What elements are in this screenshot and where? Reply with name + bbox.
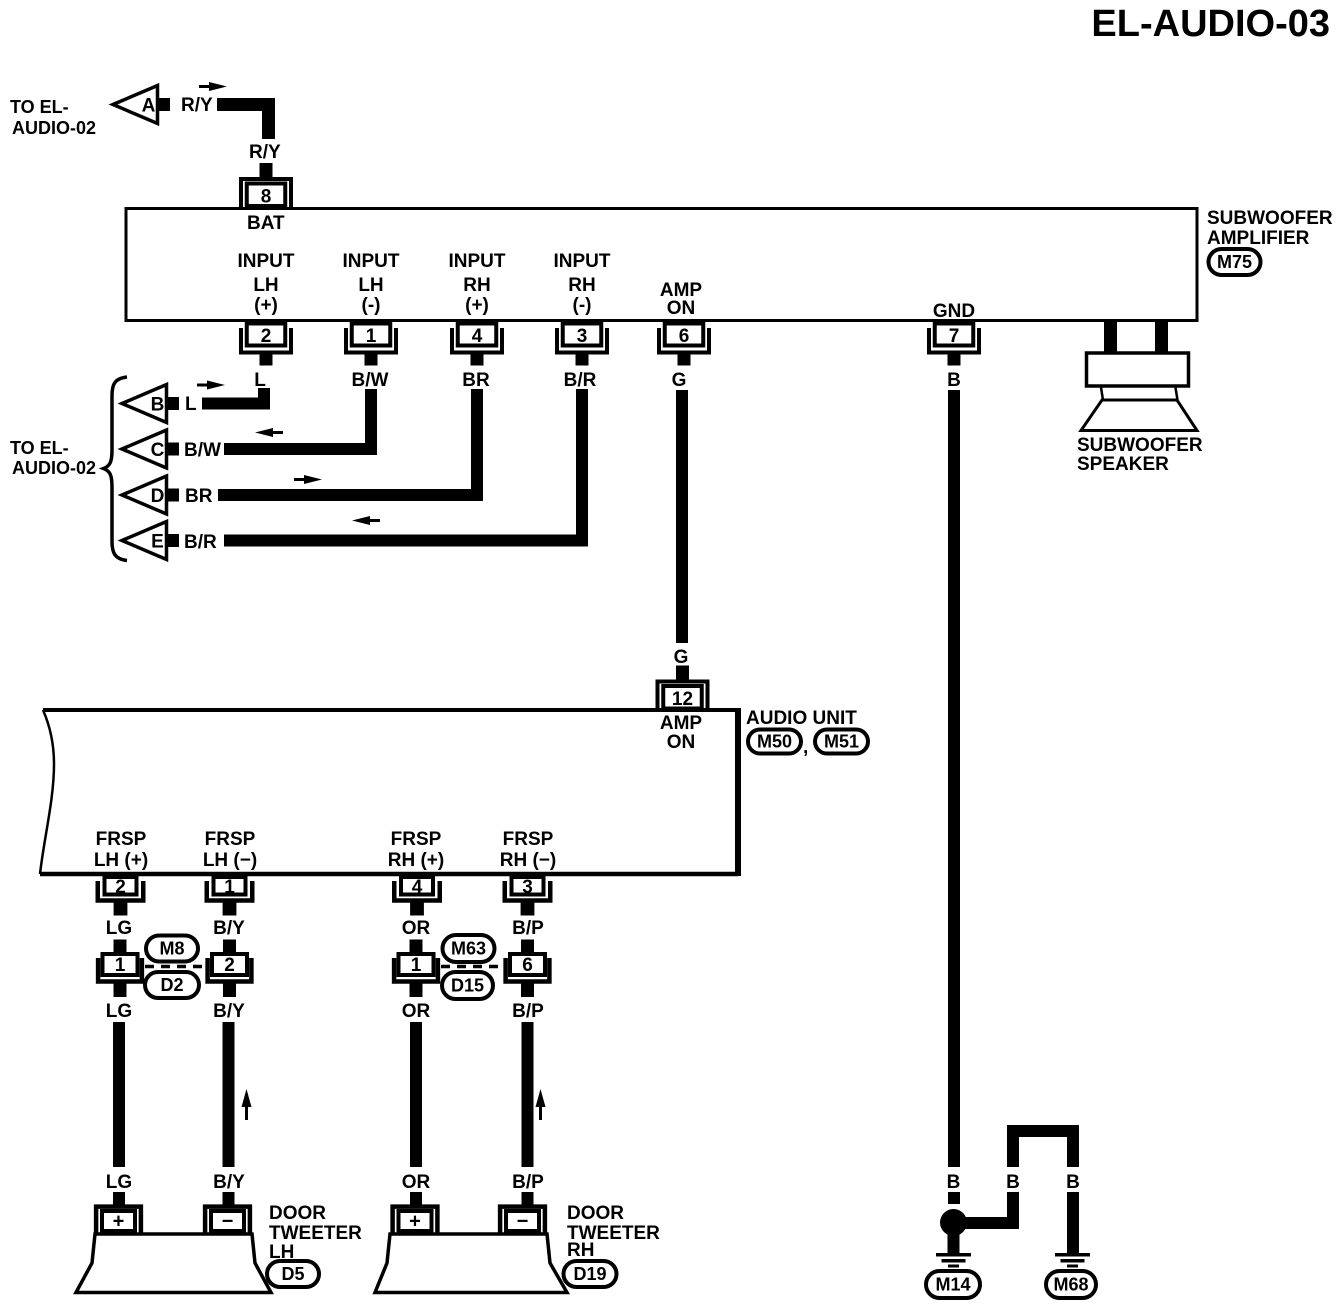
n-shaped wire B branch	[1013, 1131, 1073, 1167]
wire B/Y down to door tweeter LH -	[223, 1022, 235, 1167]
svg-text:D: D	[151, 486, 165, 507]
in-line connector pin 1 (LH, M8/D2)	[98, 940, 142, 998]
svg-text:B/R: B/R	[184, 532, 217, 553]
svg-text:RH: RH	[568, 275, 595, 296]
brace	[104, 377, 128, 561]
svg-text:B/P: B/P	[512, 918, 544, 939]
wire G from pin 6 down to audio unit pin 12	[676, 390, 688, 643]
door tweeter RH pin +	[393, 1207, 438, 1233]
connector ref D19	[564, 1261, 617, 1287]
wire colour labels above door tweeters	[106, 1172, 544, 1193]
svg-text:FRSP: FRSP	[391, 829, 442, 850]
svg-text:AUDIO-02: AUDIO-02	[12, 458, 96, 478]
svg-text:2: 2	[224, 955, 235, 976]
pin 3 (FRSP RH -) on audio unit	[505, 877, 551, 916]
svg-text:6: 6	[679, 326, 690, 347]
svg-text:(-): (-)	[573, 295, 592, 316]
wire B from pin 7 (GND) down	[948, 390, 960, 1167]
svg-text:G: G	[674, 647, 689, 668]
connector arrow D	[122, 476, 179, 514]
wire stubs into door tweeter pins	[113, 1192, 534, 1206]
direction arrow right (B)	[197, 384, 210, 387]
svg-text:1: 1	[115, 955, 126, 976]
svg-text:8: 8	[261, 187, 272, 208]
svg-text:RH (−): RH (−)	[500, 850, 556, 871]
svg-text:FRSP: FRSP	[503, 829, 554, 850]
wire right branch down to ground M68	[1067, 1192, 1079, 1253]
svg-text:6: 6	[522, 955, 533, 976]
svg-text:M51: M51	[824, 732, 859, 752]
svg-text:B/Y: B/Y	[213, 1172, 245, 1193]
svg-text:,: ,	[803, 737, 808, 758]
svg-text:L: L	[254, 370, 266, 391]
svg-text:OR: OR	[402, 1172, 431, 1193]
pin 6 (AMP ON)	[659, 324, 709, 366]
svg-text:AUDIO-02: AUDIO-02	[12, 118, 96, 138]
svg-text:RH (+): RH (+)	[388, 850, 444, 871]
pin 2 (INPUT LH +)	[241, 324, 291, 366]
label TO EL-AUDIO-02 (top)	[10, 97, 96, 138]
svg-text:M68: M68	[1053, 1275, 1088, 1295]
pin function labels INPUT LH/RH	[238, 251, 611, 316]
svg-text:LH (+): LH (+)	[94, 850, 148, 871]
svg-text:LH: LH	[358, 275, 383, 296]
svg-text:LG: LG	[106, 918, 132, 939]
pin function label AMP ON (audio unit)	[660, 713, 703, 753]
wire junction to middle branch	[954, 1192, 1014, 1229]
connector ref D2	[145, 972, 199, 998]
in-line connector pin 6 (RH, M63/D15)	[506, 940, 550, 998]
svg-text:ON: ON	[667, 298, 696, 319]
ground ref M14	[926, 1271, 980, 1298]
wire stub junction down to ground M14	[948, 1234, 960, 1253]
svg-text:B: B	[151, 395, 165, 416]
connector arrow E	[122, 522, 179, 560]
subwoofer speaker symbol	[1081, 353, 1197, 431]
pin 4 (FRSP RH +) on audio unit	[394, 877, 440, 916]
pin 2 (FRSP LH +) on audio unit	[98, 877, 144, 916]
wire B/W from C up to pin 1	[224, 389, 371, 449]
svg-text:SPEAKER: SPEAKER	[1077, 454, 1169, 475]
pin function label AMP ON	[660, 280, 703, 319]
svg-text:(+): (+)	[465, 295, 489, 316]
svg-text:BR: BR	[185, 486, 213, 507]
svg-text:B: B	[1066, 1172, 1080, 1193]
wire colour labels under audio unit pins	[106, 918, 544, 939]
connector arrow B	[122, 385, 179, 423]
svg-text:D19: D19	[573, 1264, 606, 1284]
svg-text:B/Y: B/Y	[213, 1001, 245, 1022]
svg-text:INPUT: INPUT	[449, 251, 506, 272]
svg-text:M8: M8	[159, 939, 184, 959]
connector ref D5	[267, 1261, 319, 1287]
svg-text:D5: D5	[281, 1264, 304, 1284]
component name SUBWOOFER SPEAKER	[1077, 435, 1203, 475]
svg-text:LG: LG	[106, 1172, 132, 1193]
pin 4 (INPUT RH +)	[452, 324, 502, 366]
connector ref M50	[748, 730, 801, 754]
wire LG down to door tweeter LH +	[113, 1022, 125, 1167]
svg-text:OR: OR	[402, 918, 431, 939]
direction arrow right (D)	[294, 478, 307, 481]
component name DOOR TWEETER RH	[567, 1203, 660, 1261]
svg-text:R/Y: R/Y	[249, 142, 281, 163]
svg-text:FRSP: FRSP	[96, 829, 147, 850]
svg-text:(-): (-)	[362, 295, 381, 316]
svg-text:TO EL-: TO EL-	[10, 97, 69, 117]
ground ref M68	[1046, 1271, 1096, 1298]
svg-text:TO EL-: TO EL-	[10, 438, 69, 458]
svg-text:−: −	[222, 1211, 234, 1233]
connector ref M8	[146, 936, 198, 962]
svg-text:LH (−): LH (−)	[203, 850, 257, 871]
svg-text:L: L	[185, 394, 197, 415]
svg-text:B/R: B/R	[564, 370, 597, 391]
pin 1 (FRSP LH -) on audio unit	[207, 877, 253, 916]
svg-text:+: +	[409, 1211, 421, 1233]
svg-text:B: B	[947, 1172, 961, 1193]
pin function labels FRSP	[94, 829, 556, 871]
svg-text:E: E	[151, 532, 164, 553]
svg-text:B: B	[1006, 1172, 1020, 1193]
ground symbol (M68)	[1055, 1253, 1090, 1268]
svg-text:2: 2	[261, 326, 272, 347]
wire B/P down to door tweeter RH -	[522, 1022, 534, 1167]
svg-text:−: −	[517, 1211, 529, 1233]
svg-text:M14: M14	[935, 1275, 970, 1295]
svg-text:G: G	[672, 370, 687, 391]
svg-text:BAT: BAT	[247, 213, 285, 234]
svg-text:TWEETER: TWEETER	[269, 1223, 362, 1244]
svg-text:3: 3	[522, 877, 533, 898]
pin 7 (GND)	[929, 324, 979, 366]
svg-text:FRSP: FRSP	[205, 829, 256, 850]
door tweeter LH pin -	[205, 1207, 250, 1233]
direction arrow right (A)	[199, 85, 212, 88]
junction dot	[940, 1209, 967, 1236]
component name SUBWOOFER AMPLIFIER	[1207, 208, 1333, 249]
svg-text:3: 3	[577, 326, 588, 347]
connector ref M51	[815, 730, 868, 754]
svg-text:OR: OR	[402, 1001, 431, 1022]
wire colour labels below in-line connectors	[106, 1001, 544, 1022]
svg-text:2: 2	[115, 877, 126, 898]
svg-text:4: 4	[472, 326, 483, 347]
svg-text:M75: M75	[1217, 252, 1252, 272]
direction arrow up (B/P)	[539, 1104, 542, 1120]
connector arrow A (to EL-AUDIO-02)	[113, 86, 170, 124]
svg-text:LH: LH	[253, 275, 278, 296]
wire BR from D up to pin 4	[218, 389, 477, 495]
svg-text:DOOR: DOOR	[567, 1203, 624, 1224]
svg-text:B/P: B/P	[512, 1172, 544, 1193]
svg-text:+: +	[113, 1211, 125, 1233]
door tweeter RH pin -	[500, 1207, 545, 1233]
svg-text:ON: ON	[667, 732, 696, 753]
svg-text:RH: RH	[567, 1240, 594, 1261]
wire stubs amplifier to subwoofer speaker	[1104, 322, 1168, 353]
component name DOOR TWEETER LH	[269, 1203, 362, 1263]
svg-text:SUBWOOFER: SUBWOOFER	[1077, 435, 1203, 456]
svg-text:RH: RH	[463, 275, 490, 296]
in-line connector pin 1 (RH, M63/D15)	[394, 940, 438, 998]
dashed connector link (M8/D2)	[145, 965, 204, 969]
svg-text:AUDIO UNIT: AUDIO UNIT	[746, 708, 857, 729]
svg-text:B/P: B/P	[512, 1001, 544, 1022]
direction arrow left (E)	[367, 519, 380, 522]
wire stub main B into junction	[948, 1192, 960, 1204]
svg-text:BR: BR	[462, 370, 490, 391]
wire B/R from E up to pin 3	[224, 389, 582, 541]
svg-text:AMPLIFIER: AMPLIFIER	[1207, 228, 1310, 249]
svg-text:B/Y: B/Y	[213, 918, 245, 939]
dashed connector link (M63/D15)	[441, 965, 501, 969]
svg-text:1: 1	[224, 877, 235, 898]
connector ref D15	[442, 972, 493, 999]
wire OR down to door tweeter RH +	[410, 1022, 422, 1167]
svg-text:LG: LG	[106, 1001, 132, 1022]
svg-text:4: 4	[412, 877, 423, 898]
svg-text:GND: GND	[933, 301, 975, 322]
svg-text:R/Y: R/Y	[181, 95, 213, 116]
svg-text:7: 7	[949, 326, 960, 347]
svg-text:EL-AUDIO-03: EL-AUDIO-03	[1091, 3, 1330, 45]
connector arrow C	[122, 430, 179, 468]
ground symbol (M14)	[936, 1253, 971, 1268]
door tweeter LH pin +	[96, 1207, 141, 1233]
svg-text:M50: M50	[757, 732, 792, 752]
svg-text:C: C	[151, 440, 165, 461]
connector ref M63	[443, 935, 495, 962]
svg-text:AMP: AMP	[660, 713, 703, 734]
wire L from B up to pin 2	[202, 388, 264, 404]
svg-text:1: 1	[366, 326, 377, 347]
svg-text:M63: M63	[451, 939, 486, 959]
svg-text:D15: D15	[451, 976, 484, 996]
in-line connector pin 2 (LH, M8/D2)	[208, 940, 252, 998]
svg-text:DOOR: DOOR	[269, 1203, 326, 1224]
door tweeter LH speaker symbol	[76, 1234, 271, 1293]
wire R/Y from A to pin 8	[217, 105, 269, 140]
svg-text:SUBWOOFER: SUBWOOFER	[1207, 208, 1333, 229]
connector ref M75	[1209, 249, 1261, 275]
svg-text:INPUT: INPUT	[238, 251, 295, 272]
svg-text:B/W: B/W	[184, 440, 221, 461]
svg-text:B/W: B/W	[352, 370, 389, 391]
svg-text:A: A	[142, 96, 156, 117]
pin 12 (AMP ON) on audio unit	[658, 666, 708, 711]
pin 8 (BAT) on subwoofer amplifier	[241, 163, 291, 208]
direction arrow up (B/Y)	[245, 1104, 248, 1120]
svg-text:INPUT: INPUT	[343, 251, 400, 272]
audio unit box M50/M51	[40, 708, 738, 876]
svg-text:B: B	[947, 370, 961, 391]
label TO EL-AUDIO-02 (left)	[10, 438, 96, 478]
door tweeter RH speaker symbol	[375, 1234, 567, 1293]
svg-text:12: 12	[672, 689, 693, 710]
svg-text:1: 1	[411, 955, 422, 976]
pin 1 (INPUT LH -)	[346, 324, 396, 366]
svg-text:(+): (+)	[254, 295, 278, 316]
svg-text:INPUT: INPUT	[554, 251, 611, 272]
direction arrow left (C)	[270, 431, 283, 434]
subwoofer amplifier box M75	[126, 209, 1197, 321]
pin 3 (INPUT RH -)	[557, 324, 607, 366]
svg-text:D2: D2	[160, 975, 183, 995]
wire colour labels under amplifier pins	[254, 370, 961, 391]
